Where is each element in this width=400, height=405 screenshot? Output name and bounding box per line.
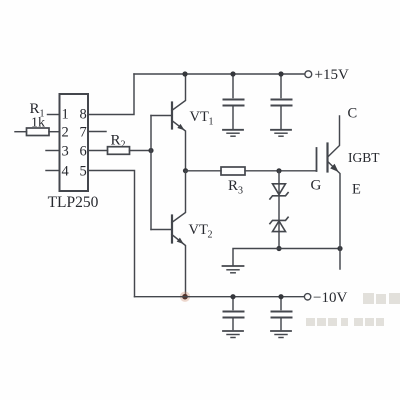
label 1k — [31, 116, 45, 131]
node VT2 emitter red junction — [180, 292, 190, 302]
svg-text:3: 3 — [238, 186, 243, 197]
svg-text:−10V: −10V — [313, 290, 347, 306]
ground C1 — [223, 130, 243, 136]
node emitter junction — [337, 246, 342, 251]
wire clamp to emitter — [279, 248, 340, 250]
resistor R3 — [221, 167, 245, 175]
svg-text:2: 2 — [121, 140, 126, 151]
svg-text:2: 2 — [208, 230, 213, 241]
label TLP250 — [48, 194, 99, 211]
wire R2 to base node — [130, 150, 152, 152]
svg-text:6: 6 — [80, 144, 87, 160]
label IGBT — [348, 150, 380, 165]
svg-text:VT: VT — [190, 109, 209, 125]
resistor R1 — [27, 128, 50, 136]
ground clamp — [223, 266, 244, 273]
label -10V — [313, 290, 347, 306]
svg-text:3: 3 — [62, 144, 69, 160]
pin 5 — [80, 164, 87, 180]
diode D2 zener — [270, 217, 288, 231]
svg-text:IGBT: IGBT — [348, 150, 380, 165]
wire pin3 stub — [46, 150, 60, 152]
wire pin1 stub — [48, 114, 60, 116]
op-amp U1 TLP250 body — [60, 94, 89, 191]
wire emitter node to R3 — [186, 170, 222, 172]
watermark — [306, 293, 400, 326]
node C3 top — [230, 294, 235, 299]
pin 6 — [80, 144, 87, 160]
node base junction — [148, 148, 153, 153]
terminal +15V — [305, 71, 312, 78]
capacitor C4 — [272, 297, 292, 330]
svg-text:5: 5 — [80, 164, 87, 180]
pin 1 — [62, 107, 69, 123]
pin 2 — [62, 125, 69, 141]
pin 8 — [80, 107, 87, 123]
capacitor C3 — [224, 297, 244, 330]
label E — [352, 182, 361, 198]
node C1 top — [230, 71, 235, 76]
node VT1 collector — [182, 71, 187, 76]
label G — [311, 178, 322, 194]
svg-text:1: 1 — [209, 117, 214, 128]
svg-text:4: 4 — [62, 164, 70, 180]
wire pin8 to top rail — [88, 74, 134, 115]
svg-text:8: 8 — [80, 107, 87, 123]
label R2 — [111, 133, 126, 151]
wire R1 to pin2 — [49, 131, 60, 133]
node C4 top — [278, 294, 283, 299]
label R1 — [30, 101, 45, 120]
capacitor C2 — [272, 74, 292, 129]
transistor U2 IGBT — [317, 116, 341, 269]
wire R3 to gate — [245, 170, 317, 172]
resistor R2 — [108, 147, 130, 155]
wire pin5 to -10V rail — [88, 171, 135, 297]
wire pin6 to R2 — [88, 150, 108, 152]
node C2 top — [278, 71, 283, 76]
svg-text:+15V: +15V — [315, 67, 349, 83]
capacitor C1 — [224, 74, 244, 129]
svg-text:VT: VT — [189, 222, 208, 238]
pin 3 — [62, 144, 69, 160]
ground C2 — [271, 130, 291, 136]
label +15V — [315, 67, 349, 83]
ground C3 — [223, 331, 243, 338]
wire base bus — [150, 116, 152, 230]
pin 4 — [62, 164, 70, 180]
svg-text:E: E — [352, 182, 361, 198]
label VT2 — [189, 222, 213, 241]
svg-text:TLP250: TLP250 — [48, 194, 99, 211]
label C — [348, 106, 358, 122]
label VT1 — [190, 109, 214, 128]
diode D1 zener — [270, 184, 288, 199]
wire +15V top rail — [134, 73, 305, 75]
svg-text:2: 2 — [62, 125, 69, 141]
label R3 — [228, 178, 243, 197]
wire zener branch — [278, 171, 280, 249]
svg-text:G: G — [311, 178, 322, 194]
terminal -10V — [304, 294, 310, 300]
svg-text:C: C — [348, 106, 358, 122]
wire input to R1 — [15, 131, 27, 133]
wire -10V bottom rail — [135, 296, 305, 298]
wire clamp to ground — [233, 249, 279, 266]
svg-text:R: R — [228, 178, 238, 194]
wire pin7 stub — [88, 131, 106, 133]
svg-text:7: 7 — [80, 125, 87, 141]
ground C4 — [271, 331, 291, 338]
node VT1 emitter — [183, 168, 188, 173]
transistor Q1 VT1 — [151, 74, 186, 171]
node gate clamp junction — [276, 168, 281, 173]
transistor Q2 VT2 — [151, 171, 186, 297]
svg-text:1: 1 — [62, 107, 69, 123]
pin 7 — [80, 125, 87, 141]
wire pin4 stub — [46, 170, 60, 172]
node zener bottom junction — [276, 246, 281, 251]
